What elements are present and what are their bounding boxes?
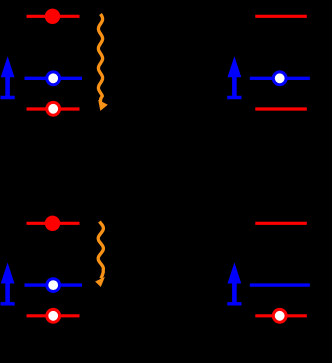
level line: bottom-right lower red: [255, 314, 306, 317]
photon: top-left orange arrowhead (down-right): [98, 100, 108, 111]
photon: bottom-left orange arrowhead (down-left): [95, 277, 105, 287]
level line: bottom-right middle blue: [250, 283, 310, 286]
level line: top-right lower red: [255, 107, 306, 110]
marker: open red circle on bottom-right lower level: [273, 309, 286, 322]
marker: open blue circle on top-left middle level: [47, 72, 60, 85]
marker: filled red circle on bottom-left upper level: [45, 216, 60, 231]
level line: bottom-left lower red: [27, 314, 80, 317]
spin arrow: bottom-right blue block arrow: [227, 263, 241, 306]
level line: top-left upper red: [27, 15, 80, 18]
level line: top-right middle blue: [250, 77, 310, 80]
marker: open red circle on top-left lower level: [47, 102, 60, 115]
level line: bottom-left middle blue: [25, 283, 83, 286]
spin arrow: top-left blue block arrow: [1, 56, 15, 99]
photon: top-left orange wavy arrow shaft: [98, 14, 102, 103]
level line: bottom-left upper red: [27, 222, 80, 225]
marker: open blue circle on bottom-left middle level: [47, 279, 60, 292]
level line: top-right upper red: [255, 15, 306, 18]
spin arrow: top-right blue block arrow: [227, 56, 241, 99]
marker: filled red circle on top-left upper level: [45, 9, 60, 24]
photon: bottom-left orange wavy arrow shaft: [98, 222, 103, 279]
spin arrow: bottom-left blue block arrow: [1, 263, 15, 306]
level line: bottom-right upper red: [255, 222, 306, 225]
marker: open red circle on bottom-left lower level: [47, 309, 60, 322]
level line: top-left lower red: [27, 107, 80, 110]
marker: open blue circle on top-right middle level: [273, 72, 286, 85]
level line: top-left middle blue: [25, 77, 83, 80]
